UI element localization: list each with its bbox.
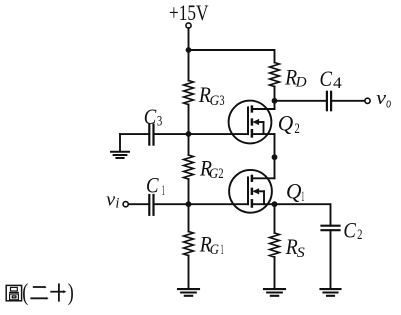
node vi input terminal: [123, 202, 128, 207]
ground RS: [264, 289, 285, 296]
node Q1 source junction: [272, 201, 278, 207]
resistor RS: [270, 233, 280, 257]
wire vi to C1: [128, 203, 149, 205]
wire Q1 source down: [274, 204, 276, 233]
glyph shi (ten): [50, 283, 66, 301]
svg-text:S: S: [297, 245, 306, 261]
svg-text:C: C: [343, 218, 356, 243]
node interstage junction: [272, 154, 278, 160]
glyph er (two): [30, 286, 48, 300]
caption figure number: [6, 283, 66, 301]
ground RG1: [178, 289, 199, 296]
svg-text:1: 1: [301, 189, 304, 205]
ground C2: [321, 289, 341, 296]
wire RD bottom / Q2 drain vertical: [274, 87, 276, 110]
svg-text:1: 1: [221, 242, 224, 258]
svg-text:Q: Q: [278, 111, 294, 136]
svg-text:o: o: [386, 96, 391, 112]
wire RS to ground: [274, 257, 276, 289]
node Q1 gate junction: [186, 201, 192, 207]
svg-text:D: D: [295, 75, 308, 91]
svg-text:v: v: [106, 190, 116, 211]
capacitor C4: [326, 92, 328, 110]
wire output to C4: [275, 100, 327, 102]
wire C3 ground stub: [119, 134, 121, 151]
svg-text:): ): [68, 280, 74, 306]
wire RG3 to gate node: [188, 105, 190, 156]
node +15V supply terminal: [186, 23, 191, 28]
svg-text:C: C: [144, 104, 157, 129]
wire source node to C2: [275, 204, 331, 226]
wire C4 to vo: [331, 100, 365, 102]
node vo output terminal: [365, 98, 370, 103]
glyph tu (figure): [6, 285, 21, 300]
svg-text:3: 3: [157, 113, 162, 129]
svg-text:2: 2: [218, 166, 223, 182]
svg-text:3: 3: [219, 93, 224, 109]
svg-text:+15V: +15V: [169, 0, 209, 25]
resistor RG1: [184, 232, 194, 256]
ground C3: [111, 152, 129, 158]
transistor Q2: [229, 101, 275, 144]
svg-text:C: C: [320, 66, 333, 91]
svg-text:G: G: [210, 242, 220, 258]
resistor RG3: [184, 81, 194, 105]
node Q2 drain junction: [272, 98, 278, 104]
svg-text:2: 2: [294, 121, 299, 137]
resistor RD: [270, 63, 280, 87]
transistor Q1: [229, 170, 274, 213]
wire RG1 to ground: [188, 256, 190, 289]
svg-text:Q: Q: [286, 178, 302, 203]
svg-text:C: C: [146, 172, 159, 197]
node Q2 gate junction: [186, 131, 192, 137]
wire C2 to ground: [330, 230, 332, 288]
resistor RG2: [184, 155, 194, 179]
wire supply vertical: [188, 28, 190, 80]
node supply junction: [186, 47, 192, 53]
svg-text:2: 2: [357, 227, 362, 243]
capacitor C1: [148, 195, 150, 215]
svg-text:4: 4: [333, 75, 342, 92]
wire RG2 to Q1 gate node: [188, 179, 190, 232]
svg-text:i: i: [115, 196, 119, 212]
svg-text:(: (: [22, 280, 28, 306]
wire top rail: [189, 50, 275, 63]
wire Q2 source to Q1 drain: [274, 134, 276, 178]
svg-text:G: G: [210, 93, 220, 109]
svg-text:1: 1: [162, 183, 165, 199]
wire C1 to Q1 gate: [154, 203, 249, 205]
capacitor C3: [148, 125, 150, 145]
wire C3 gate line: [120, 133, 149, 135]
capacitor C2: [322, 225, 340, 227]
